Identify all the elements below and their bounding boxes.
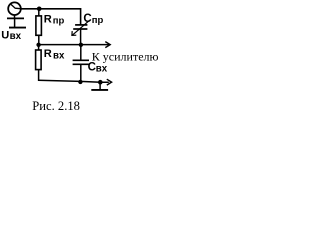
node: junction top of R_pr [37,7,42,12]
capacitor C_vx top plate [73,59,89,61]
svg-text:Рис. 2.18: Рис. 2.18 [32,99,80,113]
wire: bottom rail [38,80,109,82]
capacitor C_pr bottom plate [73,28,87,30]
svg-text:C: C [83,13,91,25]
source bottom lead [14,15,16,18]
resistor R_vx [36,50,42,70]
wire: top rail from source to C_pr corner [21,9,81,25]
node: middle rail at capacitors [79,43,83,47]
svg-text:вх: вх [10,31,22,42]
svg-text:U: U [1,30,9,42]
C_pr variable arrow [72,20,90,35]
source ground stub [14,18,16,27]
wire: C_pr bottom lead [80,29,82,45]
label R_pr [44,14,65,27]
wire: R_vx top lead [38,45,40,50]
svg-text:пр: пр [53,15,65,26]
capacitor C_vx bottom plate [73,63,89,65]
resistor R_pr [36,16,42,35]
wire: R_pr bottom lead [38,35,40,44]
label C_vx [88,62,108,75]
arrowhead middle rail [105,42,110,48]
label U_vx [1,30,21,43]
svg-text:вх: вх [96,63,108,74]
wire: R_pr top lead [38,9,40,16]
svg-text:R: R [44,48,52,60]
source terminal bar 1 [7,17,24,19]
label C_pr [83,13,103,26]
node: ground junction [98,80,103,85]
source G1 (signal generator U_vx) [8,2,21,15]
svg-text:пр: пр [92,15,104,26]
node: middle rail left [36,43,40,47]
svg-text:К усилителю: К усилителю [92,49,158,63]
arrowhead bottom rail [107,79,112,85]
label R_vx [44,48,65,62]
capacitor C_pr (variable) top plate [75,24,87,26]
svg-text:R: R [44,14,52,26]
node: C_vx bottom [78,80,82,84]
source terminal bar 2 [9,27,26,29]
wire: middle rail to amplifier [38,44,110,46]
svg-text:вх: вх [53,51,65,62]
ground [91,82,108,90]
wire: R_vx bottom lead [38,70,40,81]
wire: C_vx bottom lead [80,64,82,82]
svg-text:C: C [88,62,96,74]
wire: C_vx top lead [80,45,82,60]
